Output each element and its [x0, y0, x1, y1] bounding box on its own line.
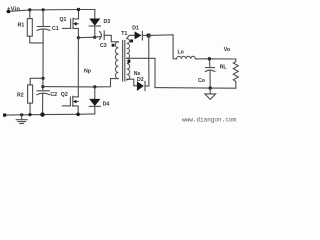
wire top rail — [7, 10, 95, 12]
wire bottom rail — [5, 114, 95, 115]
svg-text:D1: D1 — [132, 26, 139, 32]
svg-text:D2: D2 — [137, 77, 144, 83]
wire secondary bottom to D2 — [127, 79, 137, 86]
node bottom left terminal — [3, 114, 6, 117]
transistor Q1 — [62, 10, 78, 38]
node +Vin terminal — [7, 10, 10, 13]
node Q1 source junction — [77, 36, 80, 39]
resistor R1 — [27, 10, 43, 43]
svg-text:Vo: Vo — [224, 47, 230, 53]
node divider to primary tap — [41, 85, 44, 88]
svg-text:Q1: Q1 — [60, 17, 67, 23]
svg-text:C1: C1 — [52, 26, 59, 32]
node D3 cathode junction — [93, 36, 96, 39]
transformer T1 secondary Ns winding — [127, 39, 130, 80]
node C1 top junction — [42, 8, 45, 11]
node D4 anode junction — [93, 85, 96, 88]
transistor Q2 — [62, 96, 78, 114]
wire secondary center tap — [127, 58, 155, 87]
node divider R2 tap — [41, 77, 44, 80]
svg-text:D4: D4 — [103, 101, 110, 107]
node secondary top polarity dot — [130, 40, 133, 43]
ground output triangle — [205, 88, 216, 99]
wire secondary top to D1 — [127, 35, 135, 38]
capacitor C2 — [37, 91, 50, 115]
capacitor C1 — [37, 10, 50, 43]
diode D4 — [89, 87, 100, 114]
node R2 bottom junction — [28, 113, 31, 116]
wire output top rail — [195, 58, 235, 60]
svg-text:www.diangon.com: www.diangon.com — [182, 116, 236, 123]
svg-text:Np: Np — [84, 69, 91, 75]
node Q1 drain junction — [77, 8, 80, 11]
transformer T1 primary Np winding — [115, 42, 118, 79]
capacitor Co — [205, 59, 215, 88]
wire Q1 source to D3 node — [78, 36, 94, 39]
node primary polarity dot — [112, 44, 115, 47]
resistor RL zigzag — [233, 59, 238, 88]
svg-text:RL: RL — [220, 65, 228, 71]
node Co top junction — [208, 57, 211, 60]
svg-text:D3: D3 — [104, 19, 111, 25]
svg-text:Lo: Lo — [178, 50, 184, 56]
node D1 D2 cathode junction — [147, 34, 151, 38]
node ground junction — [20, 113, 23, 116]
wire primary bottom to divider — [43, 79, 119, 87]
svg-text:R1: R1 — [18, 23, 25, 29]
node Co bottom junction — [209, 86, 212, 89]
svg-text:Co: Co — [198, 78, 205, 84]
svg-text:C2: C2 — [50, 92, 57, 98]
node R1 top junction — [28, 8, 31, 11]
ground input earth — [16, 115, 27, 124]
transformer core — [122, 41, 124, 82]
inductor Lo — [177, 56, 196, 59]
wire D2 cathode up to D1 node — [148, 35, 150, 86]
resistor R2 — [28, 78, 43, 114]
svg-text:T1: T1 — [121, 31, 127, 37]
svg-text:R2: R2 — [17, 93, 24, 99]
svg-text:+Vin: +Vin — [7, 7, 20, 13]
node C2 bottom junction — [40, 112, 44, 116]
node secondary bottom polarity dot — [127, 60, 130, 63]
capacitor C3 — [95, 31, 119, 42]
diode D1 — [135, 31, 149, 40]
diode D3 — [89, 10, 100, 38]
wire rectified to output corner — [149, 35, 177, 59]
svg-text:Q2: Q2 — [61, 92, 68, 98]
diode D2 — [137, 81, 149, 91]
wire Q1 source to Q2 drain — [77, 38, 79, 97]
node Q2 source junction — [76, 113, 80, 117]
wire mid divider column — [42, 43, 44, 91]
wire output bottom rail — [155, 87, 236, 90]
svg-text:C3: C3 — [100, 43, 107, 49]
